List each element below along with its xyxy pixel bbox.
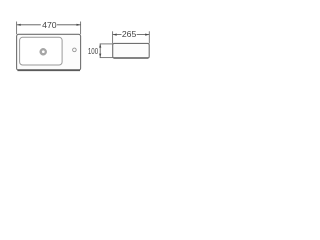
drain outer ring	[40, 48, 47, 55]
faucet hole	[73, 48, 77, 52]
drain inner hole	[42, 50, 45, 53]
dim 265 line right segment	[137, 34, 150, 36]
dim 100 extension line bottom	[100, 57, 113, 59]
dim 100 arrow bottom	[99, 54, 101, 58]
svg-text:100: 100	[88, 46, 98, 56]
dim 265 extension line left	[112, 31, 114, 43]
dim 470 arrow left	[17, 24, 21, 26]
dim 470 extension line right	[80, 22, 82, 35]
basin inner bowl rim	[20, 37, 63, 65]
dim 265 line left segment	[113, 34, 122, 36]
basin top view bottom shadow edge	[18, 69, 81, 71]
dim 470 line right segment	[57, 24, 81, 26]
side view bottom shadow edge	[114, 57, 149, 59]
dim 470 line left segment	[17, 24, 41, 26]
svg-text:265: 265	[122, 29, 137, 39]
basin top view outer body	[17, 34, 81, 70]
dim 265 arrow left	[113, 34, 117, 36]
dim 470 arrow right	[77, 24, 81, 26]
svg-text:470: 470	[42, 20, 57, 30]
background	[0, 0, 160, 97]
dim 470 extension line left	[16, 22, 18, 35]
dim 265 extension line right	[148, 31, 150, 43]
dim 265 arrow right	[145, 34, 149, 36]
side view body	[113, 43, 150, 58]
dim 100 arrow top	[99, 44, 101, 48]
dim 100 line	[99, 44, 101, 58]
dim 100 extension line top	[100, 43, 113, 45]
